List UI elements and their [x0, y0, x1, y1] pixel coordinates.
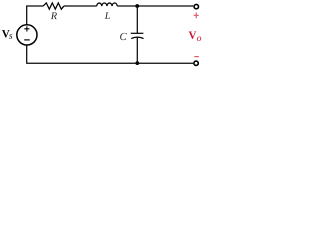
junction node top	[135, 4, 139, 8]
inductor L	[97, 3, 118, 6]
wire capacitor to bottom junction	[136, 38, 138, 64]
wire source bottom lead	[26, 45, 28, 63]
source plus sign	[24, 26, 29, 31]
wire inductor to output terminal	[117, 5, 193, 7]
wire bottom horizontal	[26, 62, 193, 64]
wire top: corner to resistor	[26, 5, 43, 7]
output terminal top	[194, 4, 198, 8]
source minus sign	[24, 39, 30, 41]
capacitor C top plate	[131, 32, 144, 34]
red plus (output polarity)	[194, 13, 199, 19]
wire junction down to capacitor	[136, 6, 138, 33]
label L	[105, 12, 110, 19]
output terminal bottom	[194, 61, 198, 65]
wire resistor to inductor	[64, 5, 97, 7]
label Vs	[2, 30, 10, 37]
label R	[51, 12, 57, 19]
label C	[120, 33, 127, 40]
resistor R	[43, 3, 64, 9]
wire source top lead	[26, 6, 28, 25]
label Vo	[189, 31, 197, 38]
red minus (output polarity)	[194, 56, 199, 58]
capacitor C curved plate	[131, 37, 143, 39]
voltage source Vs circle	[17, 25, 37, 45]
junction node bottom	[135, 61, 139, 65]
